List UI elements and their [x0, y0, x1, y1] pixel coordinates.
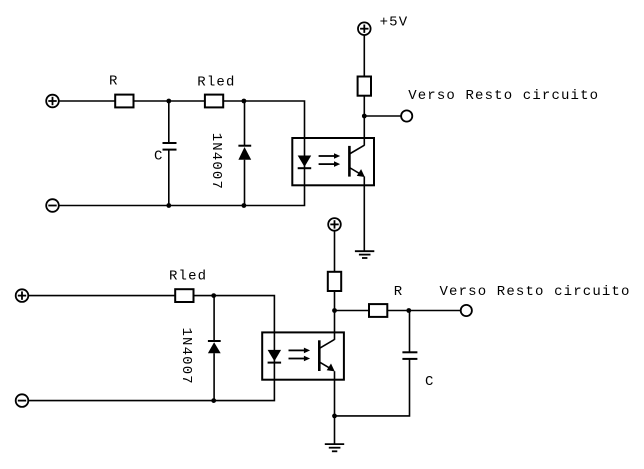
junction node OUT2 [332, 308, 337, 313]
wire node B to LED anode corner [244, 101, 305, 138]
terminal output OUT1 [401, 110, 412, 121]
svg-text:Rled: Rled [169, 269, 207, 285]
resistor R [115, 95, 133, 108]
svg-text:Verso Resto circuito: Verso Resto circuito [408, 88, 599, 104]
wire +5V to pull-up resistor [363, 35, 365, 77]
terminal output OUT2 [461, 305, 472, 316]
wire diode D2 to bottom rail [213, 353, 215, 400]
wire resistor R to node D [387, 310, 409, 312]
optocoupler U1 light arrows [319, 153, 341, 167]
wire power terminal to pull-up resistor (bottom) [334, 231, 336, 272]
svg-text:+5V: +5V [380, 15, 409, 31]
wire node A down to capacitor C [168, 101, 170, 143]
wire node B down to diode D1 [244, 101, 246, 146]
wire node C down to diode D2 [213, 296, 215, 341]
svg-text:R: R [109, 74, 119, 90]
terminal + input top circuit [46, 95, 59, 108]
wire capacitor to emitter node E [335, 359, 410, 416]
junction diode D2 / bottom rail [211, 398, 216, 403]
wire terminal to R [59, 100, 115, 102]
wire diode to bottom rail [244, 160, 246, 206]
wire R to node A [134, 100, 169, 102]
wire bottom rail bottom circuit (terminal - to LED cathode corner) [28, 380, 274, 401]
wire emitter to ground (bottom) [334, 371, 336, 444]
svg-text:Rled: Rled [197, 75, 235, 91]
terminal - input top circuit [46, 199, 59, 212]
junction node C [211, 293, 216, 298]
wire terminal to Rled (bottom) [28, 295, 175, 297]
ground (bottom circuit) [325, 444, 344, 451]
svg-text:Verso Resto circuito: Verso Resto circuito [440, 284, 631, 300]
junction node A [166, 99, 171, 104]
wire emitter to ground [363, 177, 365, 252]
wire node C to LED anode corner (bottom) [214, 296, 275, 333]
optocoupler U2 phototransistor [319, 340, 334, 372]
wire node A to Rled [169, 100, 205, 102]
optocoupler U2 box [262, 332, 344, 379]
wire Rled to node C [194, 295, 214, 297]
wire node D to output terminal (bottom) [409, 310, 461, 312]
capacitor C [163, 143, 177, 150]
wire Rled to node B [223, 100, 244, 102]
resistor pull-up (vertical) [358, 77, 371, 96]
optocoupler U1 internal LED [298, 138, 312, 185]
wire resistor to collector node OUT2 [334, 291, 336, 340]
resistor Rled [205, 95, 223, 108]
optocoupler U2 light arrows [289, 348, 311, 362]
optocoupler U2 internal LED [268, 332, 282, 379]
junction node D [406, 308, 411, 313]
wire node OUT1 to output terminal [364, 115, 401, 117]
junction diode / bottom rail [242, 203, 247, 208]
svg-text:R: R [394, 284, 404, 300]
junction node B [242, 99, 247, 104]
junction node E [332, 414, 337, 419]
svg-text:1N4007: 1N4007 [178, 328, 194, 385]
resistor pull-up vertical (bottom) [328, 272, 341, 291]
power terminal +5V [358, 22, 371, 35]
wire capacitor to bottom rail [168, 150, 170, 206]
junction node OUT1 [362, 114, 367, 119]
svg-text:C: C [154, 149, 164, 165]
resistor Rled (bottom) [175, 289, 193, 302]
svg-text:1N4007: 1N4007 [208, 133, 224, 190]
terminal - input bottom circuit [16, 394, 29, 407]
junction capacitor / bottom rail [166, 203, 171, 208]
diode D1 1N4007 (cathode up) [238, 146, 251, 160]
terminal + input bottom circuit [16, 289, 29, 302]
svg-text:C: C [425, 374, 435, 390]
power terminal + (bottom circuit) [328, 218, 341, 231]
resistor R (bottom output) [369, 304, 387, 317]
wire node OUT2 to resistor R (bottom) [335, 310, 370, 312]
ground (top circuit) [355, 251, 374, 258]
capacitor C (bottom) [402, 352, 417, 359]
optocoupler U1 box [292, 138, 374, 185]
diode D2 1N4007 (cathode up) [208, 341, 221, 353]
wire bottom rail (terminal - to LED cathode corner) [59, 185, 305, 205]
wire node D down to capacitor C (bottom) [409, 311, 411, 353]
optocoupler U1 phototransistor [349, 145, 364, 177]
wire resistor to collector node [363, 96, 365, 146]
